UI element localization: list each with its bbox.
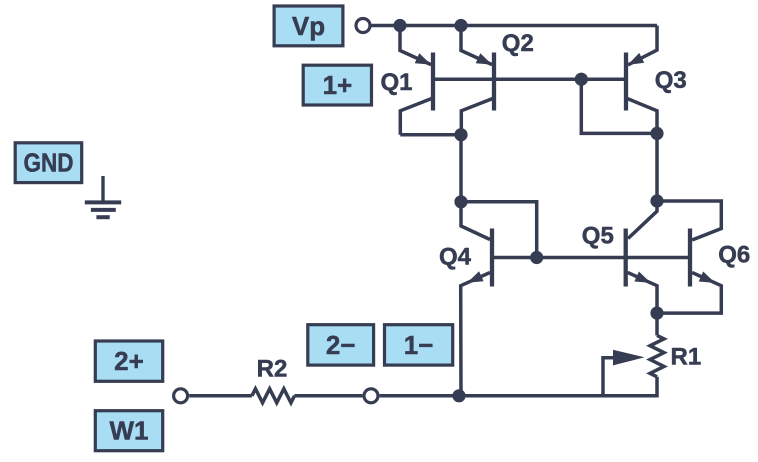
wire collector node down to Q4 [459, 135, 463, 202]
svg-text:R2: R2 [257, 356, 288, 383]
wire Vp rail [372, 24, 658, 28]
transistor Q6 [657, 201, 750, 313]
wire Q4 collector-base tie [461, 202, 537, 258]
svg-text:Q2: Q2 [502, 30, 534, 57]
svg-text:Q1: Q1 [380, 69, 412, 96]
resistor R1 [650, 335, 701, 376]
svg-text:2−: 2− [326, 330, 356, 360]
terminal 2-/1- [364, 389, 378, 403]
svg-text:Vp: Vp [292, 11, 325, 41]
junction Q4 node [454, 195, 467, 208]
junction Q5-Q6 emitters [650, 307, 663, 320]
wire left terminal to R2 [189, 394, 252, 398]
net label Vp [274, 6, 343, 46]
svg-text:R1: R1 [671, 344, 702, 371]
svg-text:Q4: Q4 [439, 244, 472, 271]
pin label 1− [385, 325, 453, 365]
terminal Vp [356, 19, 370, 33]
resistor R2 [252, 356, 295, 403]
wire Q3 base tie-down [581, 79, 657, 133]
transistor Q5 [582, 201, 657, 313]
svg-text:Q3: Q3 [655, 67, 687, 94]
svg-text:1−: 1− [404, 330, 434, 360]
wire Q5-Q6 emitters to R1 [655, 313, 659, 335]
pin label 2− [308, 325, 374, 365]
junction Vp-Q1 [393, 19, 406, 32]
transistor Q4 [439, 202, 492, 396]
junction Vp-Q2 [454, 19, 467, 32]
svg-text:Q5: Q5 [582, 223, 614, 250]
svg-text:Q6: Q6 [718, 242, 750, 269]
svg-text:W1: W1 [110, 416, 149, 446]
transistor Q2 [461, 26, 534, 135]
svg-text:2+: 2+ [114, 346, 144, 376]
R1 wiper arm [603, 350, 645, 396]
junction Q5-Q6 collectors [650, 194, 663, 207]
wire Q1 collector to Q2 collector [400, 133, 461, 137]
wire base Q1-Q2-Q3 [433, 77, 626, 81]
wire bottom to mid terminal [380, 394, 459, 398]
junction bottom wire [452, 389, 465, 402]
net label GND [15, 143, 82, 183]
wire base Q4-Q5-Q6 [492, 256, 690, 260]
wire Q3 collector down [655, 133, 659, 201]
transistor Q1 [380, 26, 433, 135]
pin label 1+ [303, 65, 371, 105]
junction Q1-Q2 collectors [454, 128, 467, 141]
ground [85, 176, 121, 217]
wire mid terminal to R2 [294, 394, 362, 398]
svg-text:GND: GND [24, 148, 74, 178]
junction base tap [575, 73, 588, 86]
pin label 2+ [95, 341, 162, 381]
transistor Q3 [626, 26, 687, 134]
wire R1 bottom [459, 377, 657, 396]
svg-text:1+: 1+ [323, 70, 353, 100]
terminal 2+/W1 [174, 389, 188, 403]
junction Q3 collector tie [650, 127, 663, 140]
junction Q4 base [530, 251, 543, 264]
pin label W1 [95, 411, 162, 451]
